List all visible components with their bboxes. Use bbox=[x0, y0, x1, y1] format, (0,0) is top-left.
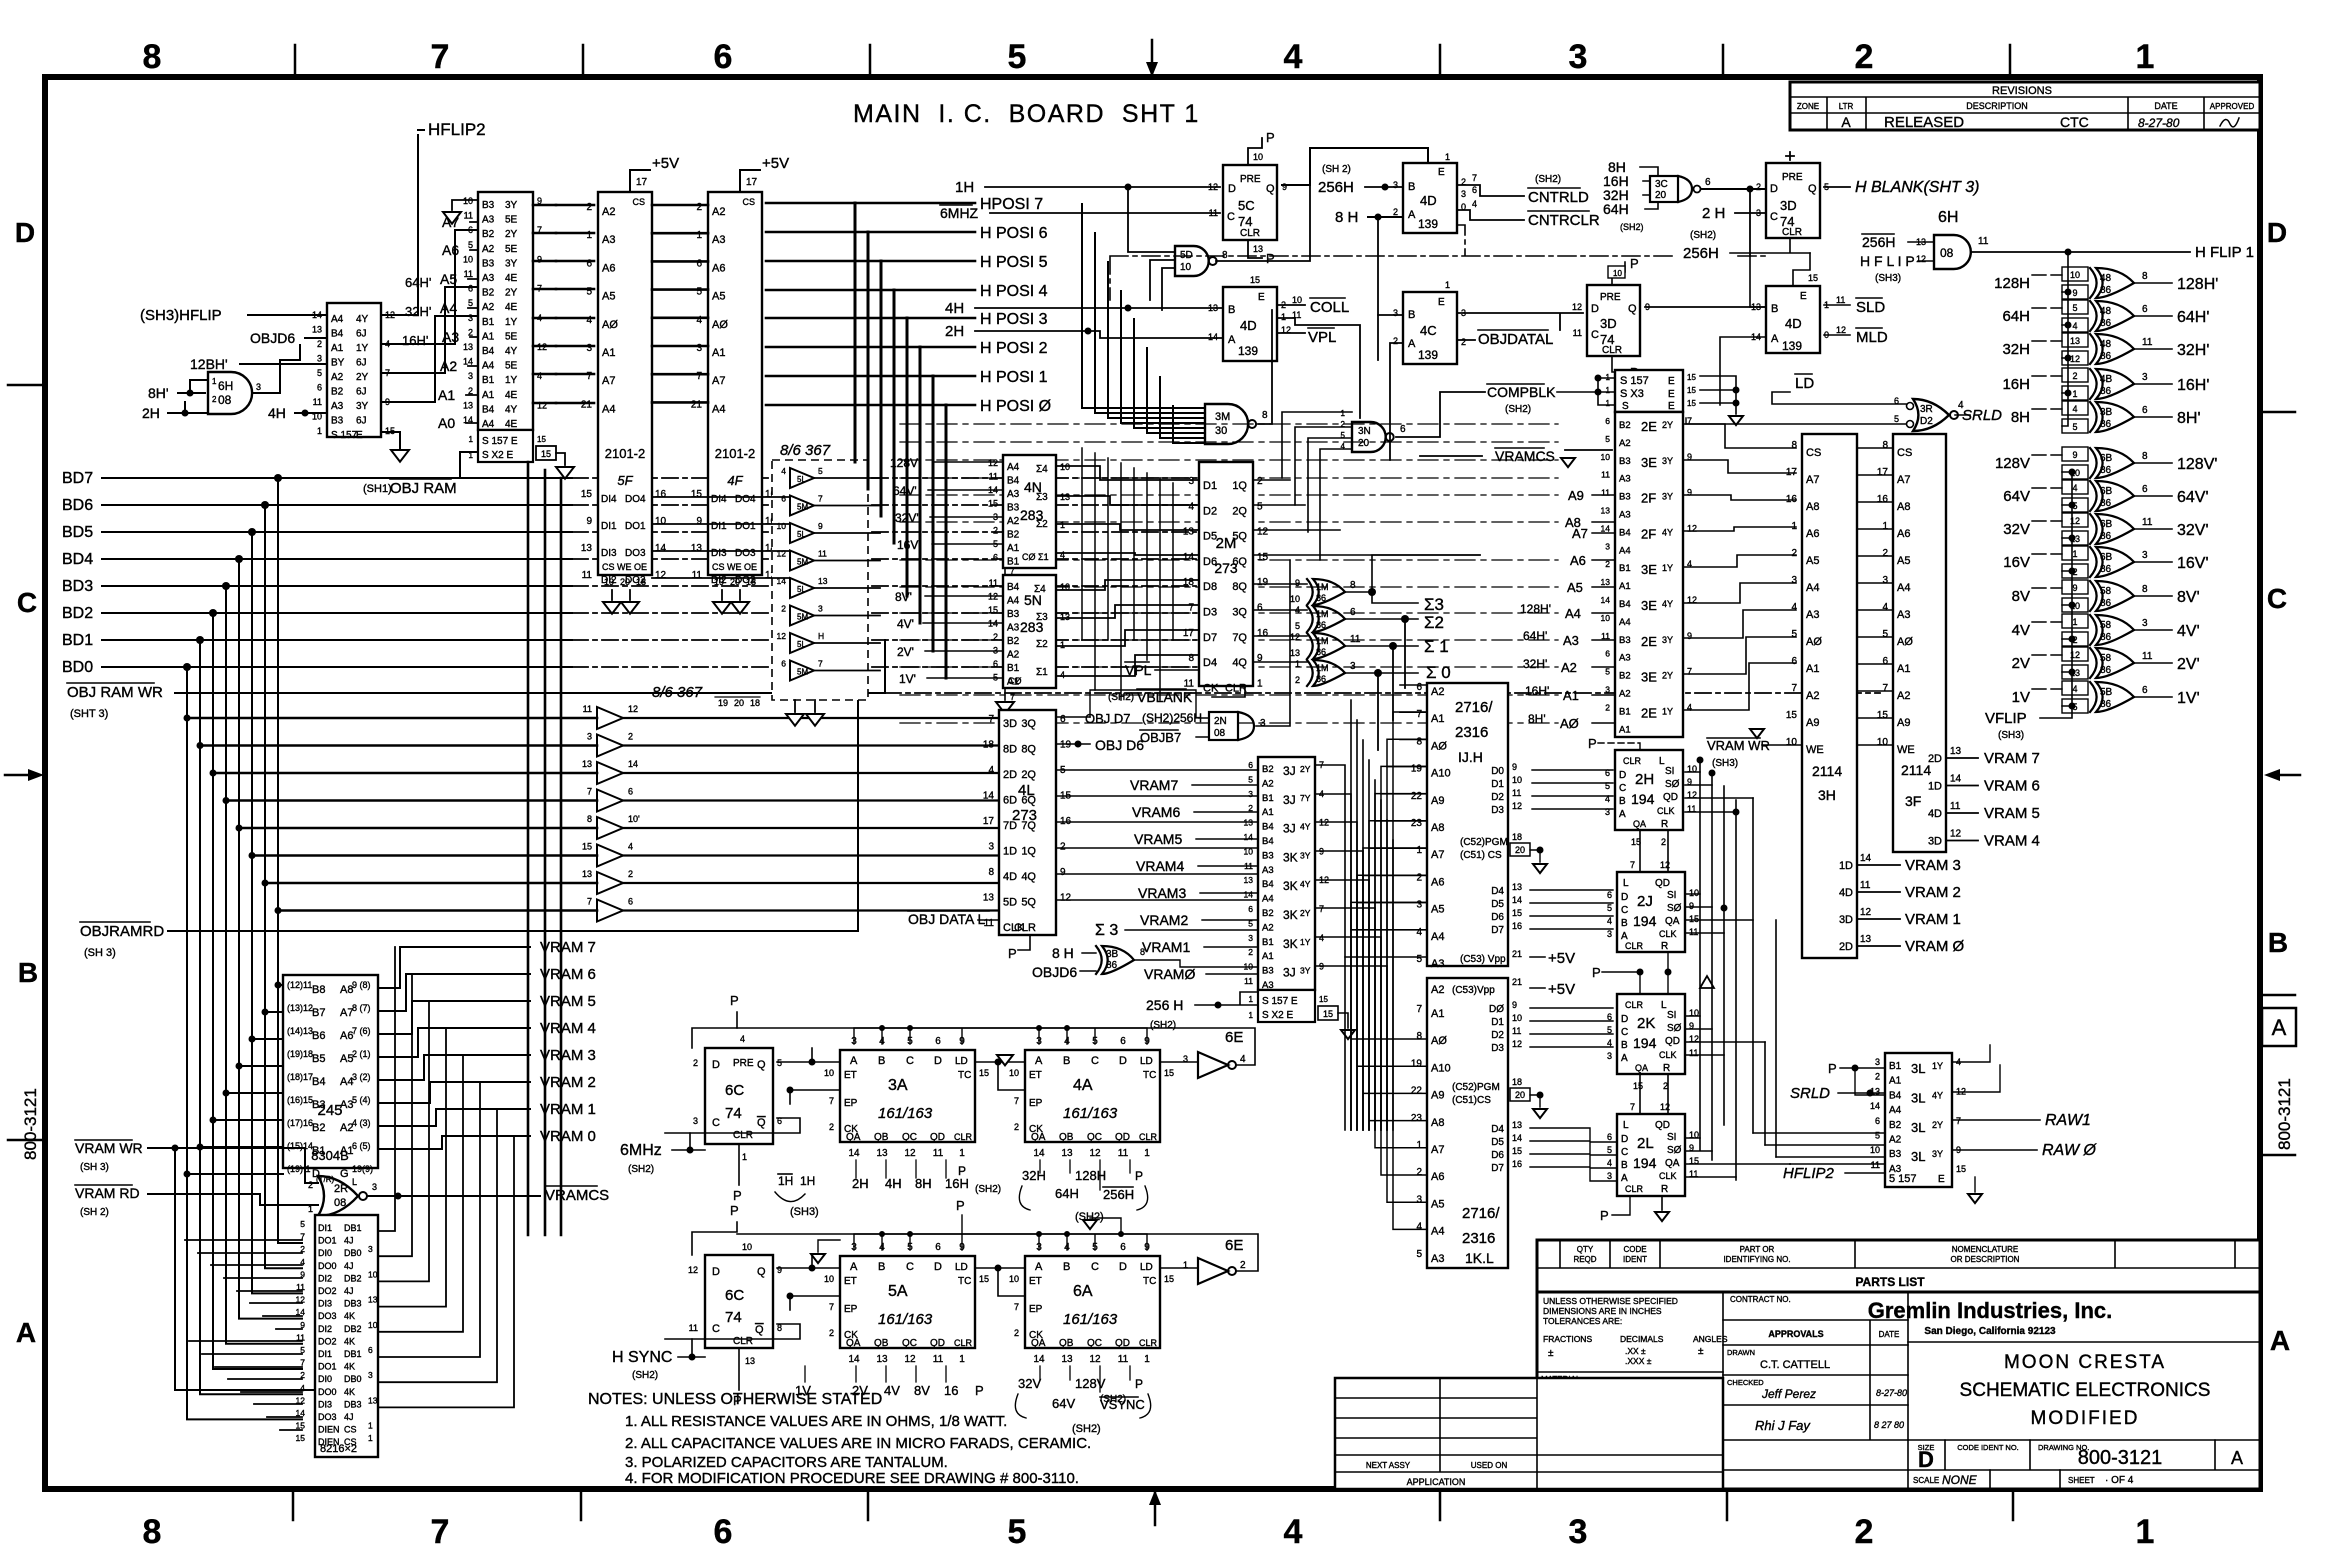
svg-text:16H: 16H bbox=[2002, 376, 2030, 393]
svg-text:86: 86 bbox=[2100, 531, 2112, 542]
wire 5D inputs bbox=[1128, 213, 1175, 310]
svg-text:VRAM Ø: VRAM Ø bbox=[1905, 938, 1965, 955]
svg-text:B3: B3 bbox=[1889, 1149, 1902, 1160]
svg-text:QC: QC bbox=[902, 1338, 917, 1349]
svg-text:P: P bbox=[730, 1203, 739, 1218]
svg-text:64H': 64H' bbox=[1523, 629, 1547, 643]
svg-text:3L: 3L bbox=[1911, 1061, 1925, 1076]
wire OBJDATAL to 4L CLK bbox=[978, 919, 999, 921]
xor column V (68/58 86) bbox=[2062, 447, 2153, 713]
svg-text:16: 16 bbox=[944, 1383, 958, 1398]
svg-text:8-27-80: 8-27-80 bbox=[2138, 116, 2180, 130]
svg-text:17: 17 bbox=[636, 177, 648, 188]
parts list header table bbox=[1537, 1240, 2260, 1292]
svg-text:4J: 4J bbox=[344, 1261, 354, 1271]
svg-text:A: A bbox=[2231, 1448, 2243, 1468]
svg-text:APPLICATION: APPLICATION bbox=[1407, 1477, 1466, 1487]
svg-text:C: C bbox=[1091, 1261, 1099, 1273]
svg-text:20: 20 bbox=[1515, 1090, 1525, 1100]
svg-text:14: 14 bbox=[1033, 1354, 1045, 1365]
svg-text:A2: A2 bbox=[1619, 689, 1631, 700]
svg-text:LD: LD bbox=[955, 1262, 968, 1273]
svg-text:8: 8 bbox=[1140, 947, 1145, 957]
svg-text:5L: 5L bbox=[797, 475, 806, 484]
IC 8304B 245 transceiver bbox=[283, 975, 378, 1187]
svg-text:2V': 2V' bbox=[2177, 656, 2200, 673]
svg-text:6: 6 bbox=[1472, 185, 1477, 195]
svg-text:6: 6 bbox=[781, 659, 786, 669]
svg-text:B4: B4 bbox=[331, 329, 344, 340]
svg-text:08: 08 bbox=[218, 393, 232, 407]
svg-text:BD5: BD5 bbox=[62, 524, 93, 541]
svg-text:9: 9 bbox=[1060, 867, 1066, 878]
wire 256H right bbox=[1730, 238, 1810, 253]
svg-text:20: 20 bbox=[1655, 190, 1667, 201]
svg-text:DO4: DO4 bbox=[625, 494, 646, 505]
svg-text:86: 86 bbox=[1316, 647, 1326, 657]
svg-text:OBJRAMRD: OBJRAMRD bbox=[80, 923, 164, 940]
svg-text:7: 7 bbox=[431, 1513, 450, 1551]
svg-text:4K: 4K bbox=[344, 1387, 355, 1397]
svg-text:A1: A1 bbox=[1563, 688, 1579, 703]
svg-text:4A: 4A bbox=[1073, 1077, 1093, 1094]
net label 6MHz bbox=[620, 1142, 662, 1175]
svg-text:C: C bbox=[906, 1055, 914, 1067]
svg-text:DØ: DØ bbox=[1489, 1004, 1504, 1015]
svg-text:A3: A3 bbox=[1897, 609, 1910, 621]
wire A-bus fan verticals bbox=[1351, 700, 1393, 1130]
wire 3N output to COMPBLK bbox=[1396, 392, 1485, 437]
svg-text:64V: 64V bbox=[2003, 488, 2030, 505]
svg-text:1: 1 bbox=[1416, 845, 1422, 856]
svg-text:4: 4 bbox=[1605, 794, 1610, 804]
svg-text:4Y: 4Y bbox=[356, 314, 369, 325]
svg-text:7: 7 bbox=[1882, 683, 1888, 694]
svg-text:1V': 1V' bbox=[899, 672, 916, 686]
svg-text:3Y: 3Y bbox=[505, 258, 518, 269]
svg-text:VPL: VPL bbox=[1125, 662, 1152, 678]
svg-text:11: 11 bbox=[1209, 208, 1218, 218]
svg-text:8 H: 8 H bbox=[1052, 945, 1074, 961]
svg-text:5: 5 bbox=[300, 1219, 305, 1229]
svg-text:6: 6 bbox=[1400, 424, 1406, 435]
svg-text:3Y: 3Y bbox=[1662, 456, 1673, 466]
svg-text:9: 9 bbox=[1512, 762, 1517, 772]
svg-text:6: 6 bbox=[935, 1036, 941, 1047]
svg-text:A2: A2 bbox=[602, 206, 615, 218]
wires A7-A0 into mux bbox=[466, 222, 478, 423]
labels below 6A bbox=[1015, 1366, 1150, 1435]
svg-text:8/6 367: 8/6 367 bbox=[780, 442, 831, 459]
svg-text:B: B bbox=[18, 957, 38, 988]
wire top pins bus 3A 4A bbox=[854, 1028, 1147, 1044]
svg-text:(SHT 3): (SHT 3) bbox=[70, 708, 108, 720]
wires 2M outputs to 1M gates bbox=[1253, 480, 1480, 662]
svg-text:OBJ D6: OBJ D6 bbox=[1095, 737, 1144, 753]
svg-text:13: 13 bbox=[312, 325, 322, 335]
svg-text:11: 11 bbox=[989, 472, 998, 482]
svg-text:2H: 2H bbox=[1635, 771, 1654, 788]
svg-text:14: 14 bbox=[1601, 523, 1611, 533]
svg-text:A6: A6 bbox=[1570, 553, 1586, 568]
svg-text:13: 13 bbox=[745, 1356, 755, 1366]
svg-text:D: D bbox=[1619, 770, 1626, 781]
svg-text:3C: 3C bbox=[1655, 179, 1668, 190]
svg-text:D7: D7 bbox=[1491, 1163, 1504, 1174]
ground left of 5A bbox=[818, 1240, 840, 1252]
wires xor H inputs bbox=[2032, 275, 2062, 409]
svg-text:+5V: +5V bbox=[1548, 981, 1575, 998]
svg-text:2: 2 bbox=[829, 1328, 834, 1338]
wire 1M outputs to sigma nets bbox=[1345, 555, 1480, 673]
wire 4L 3Q to OBJ D7 bbox=[1056, 716, 1090, 718]
IC 2114 3H RAM bbox=[1786, 434, 1872, 958]
svg-text:6: 6 bbox=[2142, 484, 2148, 495]
svg-text:A6: A6 bbox=[1431, 876, 1444, 888]
svg-text:4Q: 4Q bbox=[1021, 871, 1036, 883]
wire 12BH' to 6J bbox=[240, 363, 327, 365]
svg-text:139: 139 bbox=[1238, 344, 1258, 358]
svg-text:13: 13 bbox=[1183, 527, 1195, 538]
svg-text:9: 9 bbox=[2072, 583, 2077, 593]
svg-text:CLR: CLR bbox=[1240, 228, 1260, 239]
svg-text:1: 1 bbox=[317, 426, 322, 436]
wire 2H to 3D C bbox=[1735, 212, 1766, 214]
svg-text:B3: B3 bbox=[331, 416, 344, 427]
svg-text:COMPBLK: COMPBLK bbox=[1487, 384, 1556, 400]
svg-text:128V: 128V bbox=[1075, 1376, 1106, 1391]
svg-text:VRAM 7: VRAM 7 bbox=[1984, 750, 2040, 767]
svg-text:BD2: BD2 bbox=[62, 605, 93, 622]
svg-text:BD7: BD7 bbox=[62, 470, 93, 487]
svg-text:9: 9 bbox=[2072, 450, 2077, 460]
svg-text:(16)15: (16)15 bbox=[287, 1095, 313, 1105]
svg-text:2716/: 2716/ bbox=[1455, 699, 1493, 716]
svg-text:B1: B1 bbox=[482, 375, 495, 386]
svg-text:B3: B3 bbox=[482, 258, 495, 269]
svg-text:TOLERANCES ARE:: TOLERANCES ARE: bbox=[1543, 1316, 1622, 1326]
svg-text:10: 10 bbox=[463, 254, 473, 264]
svg-text:(19) 1: (19) 1 bbox=[287, 1164, 311, 1174]
svg-text:5E: 5E bbox=[505, 331, 518, 342]
svg-text:1: 1 bbox=[1606, 386, 1611, 395]
svg-text:4K: 4K bbox=[344, 1311, 355, 1321]
svg-text:4: 4 bbox=[2072, 684, 2077, 694]
svg-text:18: 18 bbox=[1512, 832, 1522, 842]
svg-text:273: 273 bbox=[1012, 807, 1037, 824]
svg-text:5: 5 bbox=[1008, 1513, 1027, 1551]
shift register 2K 194 bbox=[1607, 994, 1699, 1091]
zone numbers top bbox=[143, 38, 2155, 76]
svg-text:15: 15 bbox=[582, 842, 592, 852]
title block bbox=[1537, 1292, 2260, 1489]
net label CNTRCLR bbox=[1528, 211, 1644, 232]
svg-text:5: 5 bbox=[1295, 621, 1300, 631]
svg-text:TC: TC bbox=[958, 1276, 971, 1287]
svg-text:A2: A2 bbox=[712, 206, 725, 218]
svg-text:3K: 3K bbox=[1283, 908, 1298, 922]
svg-text:2V: 2V bbox=[852, 1383, 868, 1398]
svg-text:S X3: S X3 bbox=[1620, 388, 1644, 400]
svg-text:D: D bbox=[1228, 183, 1236, 195]
svg-text:D: D bbox=[712, 1059, 720, 1071]
svg-text:R: R bbox=[1661, 941, 1668, 952]
svg-text:1: 1 bbox=[368, 1433, 373, 1443]
svg-text:10: 10 bbox=[368, 1269, 378, 1279]
svg-text:1D: 1D bbox=[1003, 846, 1017, 858]
svg-text:.XX ±: .XX ± bbox=[1625, 1346, 1646, 1356]
svg-text:12: 12 bbox=[688, 1265, 698, 1275]
svg-text:2: 2 bbox=[2072, 371, 2077, 381]
svg-text:18: 18 bbox=[983, 740, 995, 751]
svg-text:OBJB7: OBJB7 bbox=[1140, 730, 1181, 745]
svg-text:DI2: DI2 bbox=[318, 1324, 332, 1334]
svg-text:A4: A4 bbox=[440, 300, 457, 316]
zone ticks bottom bbox=[293, 1489, 2013, 1520]
svg-text:14: 14 bbox=[1033, 1148, 1045, 1159]
svg-text:3K: 3K bbox=[1283, 850, 1298, 864]
svg-text:QD: QD bbox=[1665, 1036, 1680, 1047]
svg-text:9 (8): 9 (8) bbox=[352, 980, 371, 990]
svg-text:1H: 1H bbox=[955, 179, 974, 196]
svg-text:VRAM 2: VRAM 2 bbox=[1905, 884, 1961, 901]
input labels 128H'-8H' (stack) bbox=[1520, 602, 1551, 726]
svg-text:CTC: CTC bbox=[2060, 114, 2089, 130]
gate 2R 7408 bbox=[308, 1176, 377, 1216]
input labels A7-A0 (stack) bbox=[1560, 526, 1588, 731]
svg-text:(SH2): (SH2) bbox=[1150, 1020, 1176, 1031]
svg-text:(C51)CS: (C51)CS bbox=[1452, 1095, 1491, 1106]
svg-text:DB2: DB2 bbox=[344, 1273, 362, 1283]
svg-text:6H: 6H bbox=[218, 379, 233, 393]
svg-text:E: E bbox=[356, 430, 363, 441]
svg-text:3: 3 bbox=[1607, 1051, 1612, 1061]
svg-text:L: L bbox=[1623, 1120, 1629, 1131]
svg-text:256 H: 256 H bbox=[1146, 997, 1183, 1013]
power P below 6C bottom bbox=[738, 1348, 740, 1390]
svg-text:6: 6 bbox=[1605, 768, 1610, 778]
inverter 6E (top) bbox=[1183, 1029, 1246, 1078]
svg-text:20: 20 bbox=[620, 577, 630, 587]
svg-text:5: 5 bbox=[1607, 1025, 1612, 1035]
net labels VRAM7-0 (3J inputs) bbox=[1130, 777, 1195, 982]
svg-text:13: 13 bbox=[1061, 1148, 1073, 1159]
svg-text:86: 86 bbox=[2100, 598, 2112, 609]
svg-text:A3: A3 bbox=[1619, 510, 1631, 521]
svg-text:12: 12 bbox=[904, 1148, 916, 1159]
wire HFLIP to 6J pin 14 bbox=[248, 314, 327, 316]
input labels A7-A0 (mux 5E4E) bbox=[438, 214, 459, 431]
power P (below 2L) bbox=[1612, 1196, 1630, 1215]
svg-text:7: 7 bbox=[586, 371, 592, 382]
svg-text:A3: A3 bbox=[1563, 633, 1579, 648]
svg-text:13: 13 bbox=[691, 543, 703, 554]
svg-text:DECIMALS: DECIMALS bbox=[1620, 1334, 1664, 1344]
svg-text:86: 86 bbox=[1316, 674, 1326, 684]
svg-text:9: 9 bbox=[696, 516, 702, 527]
net labels VRAM3-0 (3H) bbox=[1905, 857, 1965, 955]
svg-text:CLR: CLR bbox=[1623, 756, 1642, 766]
revisions table bbox=[1790, 82, 2260, 131]
gate 3B 7486 XOR bbox=[1096, 946, 1145, 974]
svg-text:A4: A4 bbox=[1262, 894, 1274, 905]
svg-text:Σ 0: Σ 0 bbox=[1426, 663, 1451, 682]
svg-text:10: 10 bbox=[1512, 775, 1522, 785]
svg-text:11: 11 bbox=[692, 570, 703, 581]
svg-text:8Q: 8Q bbox=[1021, 744, 1036, 756]
svg-text:7: 7 bbox=[1630, 860, 1635, 870]
svg-text:4J: 4J bbox=[344, 1286, 354, 1296]
svg-text:2: 2 bbox=[693, 1058, 698, 1068]
svg-text:CLR: CLR bbox=[1602, 345, 1622, 356]
svg-text:DB0: DB0 bbox=[344, 1374, 362, 1384]
svg-text:21: 21 bbox=[691, 399, 703, 410]
svg-text:CLR: CLR bbox=[1225, 682, 1247, 694]
wires 5M buffer inputs bbox=[187, 718, 597, 911]
svg-text:APPROVALS: APPROVALS bbox=[1768, 1329, 1823, 1339]
svg-text:5M: 5M bbox=[797, 668, 808, 677]
svg-text:A4: A4 bbox=[1565, 606, 1581, 621]
wire bundle left-centre verticals bbox=[528, 462, 561, 1235]
svg-text:2: 2 bbox=[1882, 548, 1888, 559]
svg-text:PART OR: PART OR bbox=[1740, 1245, 1775, 1254]
svg-text:A: A bbox=[1621, 1053, 1628, 1064]
svg-text:2: 2 bbox=[1416, 1167, 1422, 1178]
svg-text:13: 13 bbox=[368, 1395, 378, 1405]
wire 3A TC to 4A bbox=[975, 1062, 1025, 1090]
svg-text:5: 5 bbox=[696, 287, 702, 298]
power P above 5C bbox=[1248, 138, 1262, 165]
power P below 5C bbox=[1248, 240, 1262, 258]
svg-text:B7: B7 bbox=[312, 1007, 325, 1019]
svg-text:(17)16: (17)16 bbox=[287, 1118, 313, 1128]
svg-text:B: B bbox=[1063, 1055, 1070, 1067]
svg-text:D3: D3 bbox=[1203, 607, 1217, 619]
svg-text:B3: B3 bbox=[1619, 456, 1631, 467]
svg-text:16: 16 bbox=[1512, 921, 1522, 931]
svg-text:QTY: QTY bbox=[1577, 1245, 1594, 1254]
svg-text:18: 18 bbox=[636, 577, 646, 587]
svg-text:Q: Q bbox=[755, 1324, 764, 1336]
ground X2 (3J3K) bbox=[1338, 1013, 1348, 1028]
svg-text:B1: B1 bbox=[1889, 1061, 1902, 1072]
svg-text:13: 13 bbox=[876, 1354, 888, 1365]
svg-text:C: C bbox=[712, 1117, 720, 1129]
svg-text:A4: A4 bbox=[482, 361, 495, 372]
svg-text:REQD: REQD bbox=[1573, 1255, 1596, 1264]
svg-text:20: 20 bbox=[734, 698, 744, 708]
svg-text:SØ: SØ bbox=[1667, 903, 1682, 914]
svg-text:4Y: 4Y bbox=[1300, 879, 1311, 889]
flip-flop 6C 74 (bottom) bbox=[688, 1242, 782, 1366]
svg-text:58: 58 bbox=[2100, 653, 2112, 664]
svg-text:6: 6 bbox=[1248, 760, 1253, 770]
svg-text:1Y: 1Y bbox=[356, 343, 369, 354]
svg-text:4: 4 bbox=[1188, 501, 1194, 512]
svg-text:SHEET: SHEET bbox=[2068, 1476, 2095, 1485]
svg-text:3Y: 3Y bbox=[1662, 492, 1673, 502]
svg-text:30: 30 bbox=[1215, 425, 1227, 437]
svg-text:8H: 8H bbox=[2011, 409, 2030, 426]
svg-text:9: 9 bbox=[1295, 578, 1300, 588]
svg-text:A7: A7 bbox=[1572, 526, 1588, 541]
svg-text:6B: 6B bbox=[2100, 453, 2113, 464]
svg-text:8H': 8H' bbox=[1528, 712, 1546, 726]
svg-text:3D: 3D bbox=[1003, 718, 1017, 730]
wire bundle 194 SI/S0 verticals bbox=[1700, 760, 1736, 1180]
svg-text:11: 11 bbox=[1244, 976, 1253, 986]
svg-text:3: 3 bbox=[1461, 189, 1466, 199]
svg-text:1: 1 bbox=[1295, 659, 1300, 669]
svg-text:2: 2 bbox=[781, 604, 786, 614]
svg-text:12: 12 bbox=[2070, 354, 2080, 364]
svg-text:P: P bbox=[1008, 946, 1017, 961]
svg-text:CLK: CLK bbox=[1657, 806, 1675, 816]
svg-text:6: 6 bbox=[1791, 656, 1797, 667]
svg-text:PRE: PRE bbox=[1782, 172, 1803, 183]
wires EPROM data to 194s bbox=[1530, 770, 1617, 1181]
svg-text:10: 10 bbox=[1870, 1145, 1880, 1155]
svg-text:3R: 3R bbox=[1920, 404, 1933, 415]
svg-text:2Y: 2Y bbox=[505, 288, 518, 299]
svg-text:H POSI Ø: H POSI Ø bbox=[980, 398, 1051, 415]
svg-text:DI3: DI3 bbox=[711, 548, 727, 559]
svg-text:CLR: CLR bbox=[954, 1338, 973, 1348]
wires VRAM inputs to 3J stack bbox=[1192, 785, 1258, 974]
svg-text:H POSI 3: H POSI 3 bbox=[980, 311, 1048, 328]
svg-text:13: 13 bbox=[1512, 1120, 1522, 1130]
svg-text:1: 1 bbox=[1606, 399, 1611, 408]
xor column H (48/3B 86) bbox=[2062, 267, 2153, 433]
svg-text:4H: 4H bbox=[945, 300, 964, 317]
svg-text:6B: 6B bbox=[2100, 519, 2113, 530]
svg-text:16H': 16H' bbox=[402, 333, 428, 348]
svg-text:5: 5 bbox=[586, 287, 592, 298]
svg-text:9: 9 bbox=[818, 521, 823, 531]
wire X3 enables bracket bbox=[1700, 376, 1736, 414]
svg-text:S: S bbox=[1622, 401, 1629, 412]
svg-text:B3: B3 bbox=[1007, 609, 1020, 620]
svg-text:2: 2 bbox=[586, 202, 592, 213]
svg-text:H POSI 4: H POSI 4 bbox=[980, 283, 1048, 300]
svg-text:128H': 128H' bbox=[2177, 276, 2218, 293]
svg-text:DI3: DI3 bbox=[601, 548, 617, 559]
svg-text:14: 14 bbox=[655, 543, 667, 554]
svg-text:A1: A1 bbox=[1897, 663, 1910, 675]
svg-text:2: 2 bbox=[1461, 337, 1466, 347]
power P below 6C top bbox=[738, 1144, 740, 1185]
svg-text:3J: 3J bbox=[1283, 793, 1296, 807]
svg-text:86: 86 bbox=[1316, 620, 1326, 630]
svg-text:2K: 2K bbox=[1637, 1015, 1655, 1032]
svg-text:DO0: DO0 bbox=[318, 1261, 337, 1271]
wire RAW0 bbox=[1952, 1149, 2037, 1151]
svg-text:D2: D2 bbox=[1203, 505, 1217, 517]
svg-text:11: 11 bbox=[1871, 1160, 1880, 1170]
svg-text:2 H: 2 H bbox=[1702, 205, 1725, 222]
svg-text:15: 15 bbox=[581, 489, 593, 500]
svg-text:4: 4 bbox=[1791, 602, 1797, 613]
ground between 3A 4A bbox=[997, 1055, 1013, 1065]
svg-text:4L: 4L bbox=[1018, 782, 1035, 799]
svg-text:11: 11 bbox=[2142, 517, 2153, 528]
svg-text:15: 15 bbox=[1512, 1146, 1522, 1156]
svg-text:A: A bbox=[1619, 809, 1626, 820]
svg-text:13: 13 bbox=[876, 1148, 888, 1159]
wire 3L 4Y bbox=[1952, 1065, 2000, 1092]
input labels 64H' 32H' 16H' bbox=[402, 275, 431, 348]
svg-text:B2: B2 bbox=[1262, 908, 1274, 919]
